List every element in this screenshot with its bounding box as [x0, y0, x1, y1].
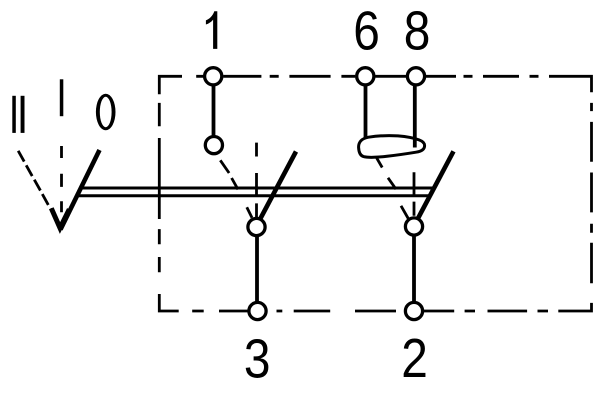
wire pivot to terminal 2: [412, 232, 416, 306]
terminal 6: [357, 68, 374, 85]
wire terminal 6 to bridge: [364, 84, 368, 140]
label position II: [12, 96, 24, 133]
wire terminal 8 tip inside bridge: [413, 140, 417, 148]
switch housing right edge (dash-dot): [558, 103, 591, 311]
pivot circle pole A: [248, 218, 265, 235]
pivot circle pole B: [405, 218, 422, 235]
svg-text:8: 8: [404, 0, 431, 61]
dashed travel line pole B diagonal: [377, 158, 409, 220]
lever pole A: [258, 152, 297, 225]
bridge contact between 6 and 8: [359, 136, 425, 158]
svg-text:3: 3: [244, 327, 271, 389]
terminal 2: [405, 302, 422, 319]
lever pole B: [415, 151, 454, 224]
switch housing left edge (dash-dot): [158, 103, 161, 272]
contact circle pole A: [205, 137, 222, 154]
switch housing top edge (dash-dot): [159, 76, 591, 94]
terminal 3: [249, 302, 266, 319]
terminal 8: [407, 68, 424, 85]
wire pivot to terminal 3: [255, 232, 259, 306]
dashed travel line pole B vertical: [413, 172, 416, 216]
label terminal 1: [206, 11, 217, 49]
dashed travel line pole A vertical: [255, 143, 258, 218]
svg-text:6: 6: [353, 0, 380, 61]
dashed position line I (left indicator): [60, 146, 63, 212]
label position I: [60, 79, 64, 116]
wire terminal 1 to contact: [212, 84, 216, 139]
actuator coupling bar (double line): [77, 188, 433, 196]
dashed travel line pole A diagonal: [220, 160, 252, 218]
svg-text:2: 2: [401, 327, 428, 389]
switch housing bottom edge (dash-dot): [159, 294, 548, 311]
label position 0: [96, 94, 116, 131]
terminal 1: [205, 68, 222, 85]
wire terminal 8 into bridge: [413, 84, 417, 149]
dashed position line II (left indicator): [18, 151, 55, 218]
actuator lever position 0 (left, with arrow): [51, 150, 99, 230]
